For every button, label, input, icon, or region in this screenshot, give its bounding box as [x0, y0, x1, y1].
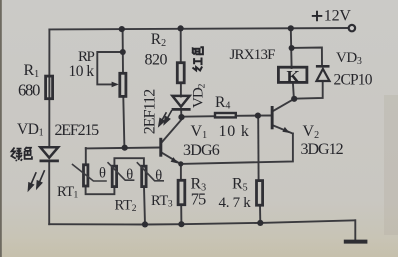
- potentiometer RP body: [120, 73, 126, 96]
- label green (Chinese 绿色): [11, 147, 32, 161]
- svg-text:10 k: 10 k: [69, 63, 95, 80]
- junction dot VD2/R4/V1 collector: [178, 114, 184, 120]
- wire: V2 base node to base: [258, 115, 271, 117]
- junction dot top rail / R2: [178, 25, 184, 31]
- resistor R3: [178, 180, 185, 204]
- junction dot RT3/rail: [142, 221, 148, 227]
- svg-text:680: 680: [18, 81, 40, 100]
- wire: relay bottom to collector node: [293, 83, 294, 99]
- wire: R5 bottom to rail: [259, 205, 261, 223]
- thermistor RT2 slash: [108, 162, 135, 180]
- junction dot relay bottom / V2 collector: [291, 96, 297, 102]
- junction dot RP/V1 base: [122, 145, 128, 151]
- wire: VD3 top branch: [291, 48, 322, 66]
- wire: left rail (R1/VD1 branch): [48, 29, 50, 147]
- thermistor RT3 slash: [137, 162, 164, 181]
- transistor V1 bar: [159, 138, 162, 157]
- relay K coil box: [278, 67, 307, 82]
- LED VD2 light arrows: [159, 110, 172, 125]
- svg-text:4. 7 k: 4. 7 k: [219, 195, 252, 211]
- wire: RT3 bottom to rail: [144, 187, 145, 225]
- thermistor RT2 body: [112, 166, 116, 186]
- wire: R3 drop: [180, 164, 182, 180]
- potentiometer RP wiper arrow: [112, 82, 119, 88]
- wire: ground drop: [354, 220, 356, 239]
- wire: R3 bottom to rail: [180, 205, 182, 224]
- thermistor RT1 body: [84, 165, 88, 186]
- wire: RT2 top bridge to RT3 top: [114, 158, 143, 166]
- transistor V1 emitter arrowhead: [171, 157, 178, 163]
- svg-text:2EF112: 2EF112: [142, 89, 159, 135]
- wire: VD3 bottom to collector node: [294, 81, 323, 99]
- wire: RP wiper loop: [97, 52, 122, 84]
- wire: R2 branch from top rail: [180, 28, 182, 62]
- thermistor RT3 body: [142, 166, 146, 186]
- svg-text:JRX13F: JRX13F: [230, 47, 276, 63]
- wire: V1 emitter diagonal: [162, 153, 181, 164]
- junction dot top rail / RP: [119, 26, 125, 32]
- wire: V1 base wire: [86, 147, 160, 150]
- wire: R4 to V2 base node: [236, 115, 258, 117]
- wire: RT1 top: [85, 148, 87, 165]
- terminal circle +12V: [349, 25, 355, 31]
- resistor R4: [215, 113, 236, 117]
- LED VD2 (red): [172, 96, 191, 110]
- wire: VD2 cathode to node: [180, 110, 182, 118]
- wire: emitter bus V1 to V2: [181, 134, 293, 164]
- wire: bottom ground rail: [49, 220, 355, 224]
- svg-text:θ: θ: [155, 168, 162, 184]
- svg-text:θ: θ: [126, 167, 133, 183]
- resistor R2: [177, 63, 184, 83]
- transistor V2 emitter arrowhead: [282, 127, 289, 133]
- diode VD3: [316, 66, 330, 81]
- svg-text:820: 820: [145, 51, 168, 68]
- ground symbol: [344, 240, 368, 244]
- LED VD1 light arrows: [29, 170, 45, 190]
- wire: V2 emitter diagonal: [274, 126, 293, 134]
- wire: RP bottom to base node: [123, 97, 124, 148]
- wire: RP branch from top rail: [122, 29, 124, 73]
- junction dot R3/rail: [178, 221, 184, 227]
- transistor V2 bar: [271, 106, 274, 129]
- label +12V: [312, 11, 323, 22]
- scan edge: [0, 0, 2, 257]
- wire: R2 to VD2: [180, 83, 182, 97]
- svg-text:K: K: [287, 67, 301, 86]
- junction dot V1 emitter/R3: [178, 161, 183, 166]
- resistor R1: [46, 76, 53, 99]
- junction dot R4/V2 base/R5: [255, 113, 261, 119]
- svg-text:75: 75: [191, 189, 206, 208]
- wire: relay branch from rail: [290, 28, 293, 68]
- wire: V2 base node down to R5 (crosses emitter wire, no join): [257, 116, 259, 181]
- svg-text:2EF215: 2EF215: [55, 122, 100, 139]
- junction dot RP wiper: [120, 49, 126, 55]
- wire: V2 collector: [274, 99, 294, 111]
- LED VD1 (green): [40, 147, 59, 161]
- wire: node to R4: [182, 115, 215, 118]
- wire: left rail below VD1: [48, 161, 50, 224]
- wire: RT1 bottom to RT2 bottom: [86, 187, 115, 194]
- svg-text:10 k: 10 k: [219, 123, 250, 140]
- junction dot relay/VD3 branch: [289, 45, 295, 51]
- wire: V1 collector: [162, 117, 182, 142]
- svg-text:3DG12: 3DG12: [301, 141, 344, 158]
- resistor R5: [257, 181, 263, 206]
- svg-text:θ: θ: [99, 165, 106, 181]
- svg-text:3DG6: 3DG6: [183, 142, 220, 159]
- label red-color (Chinese 红色, vertical): [192, 47, 203, 70]
- thermistor RT1 slash: [72, 164, 107, 181]
- svg-text:2CP10: 2CP10: [334, 72, 373, 89]
- junction dot top rail / relay: [288, 25, 294, 31]
- svg-text:12V: 12V: [324, 8, 352, 25]
- junction dot R5/rail: [257, 220, 263, 226]
- wire: +12V top rail: [49, 28, 348, 29]
